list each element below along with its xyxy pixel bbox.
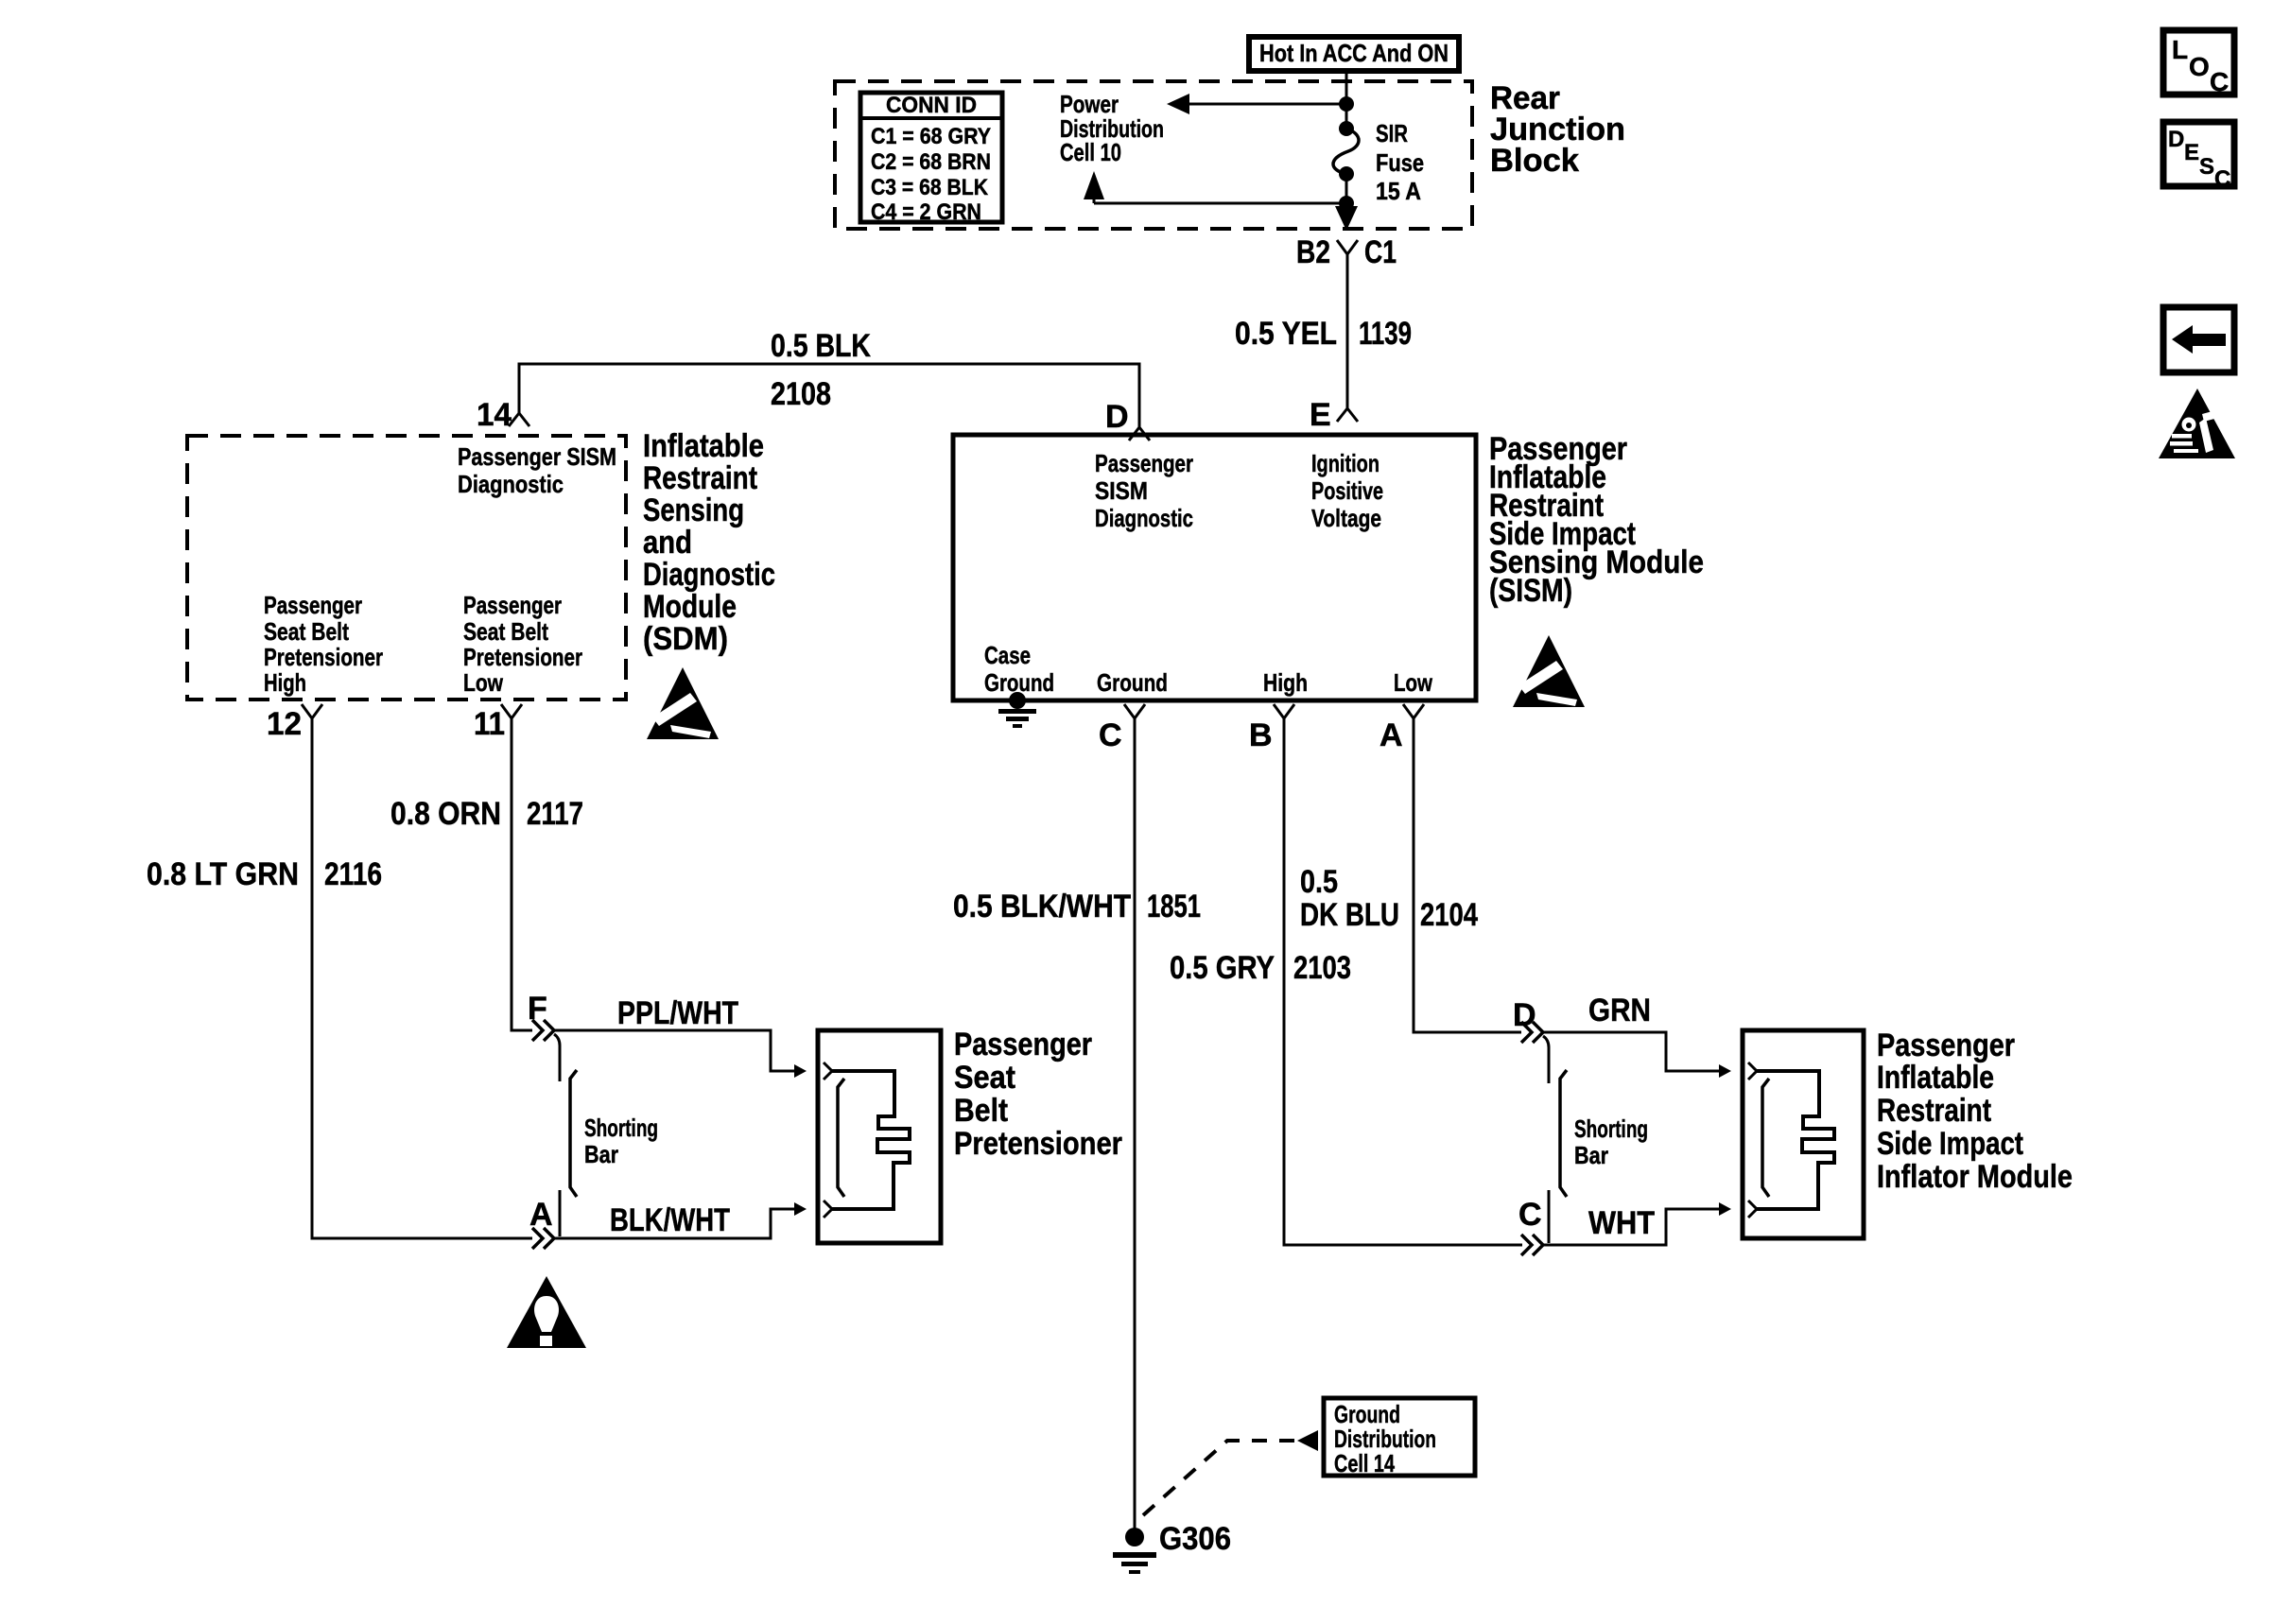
- svg-text:Bar: Bar: [1574, 1141, 1608, 1169]
- Power Distribution Cell 10 label: [1060, 90, 1164, 166]
- SDM module box (dashed outline): [187, 436, 626, 700]
- svg-text:C2 = 68 BRN: C2 = 68 BRN: [871, 149, 991, 175]
- svg-text:1851: 1851: [1147, 889, 1201, 924]
- connector B2/C1: [1296, 234, 1397, 270]
- svg-text:Passenger: Passenger: [1095, 449, 1193, 477]
- SISM internal pin labels: [1097, 668, 1433, 697]
- svg-text:BLK/WHT: BLK/WHT: [610, 1202, 730, 1238]
- svg-text:E: E: [1310, 397, 1331, 433]
- SISM label: [1489, 431, 1704, 609]
- LOC reference box: [2163, 30, 2234, 96]
- svg-text:O: O: [2189, 52, 2210, 81]
- svg-text:C4 = 2 GRN: C4 = 2 GRN: [871, 199, 981, 225]
- SDM label: [643, 428, 775, 657]
- svg-text:Hot In ACC And ON: Hot In ACC And ON: [1259, 39, 1449, 67]
- wire: fuse to connector B2 (down arrow): [1335, 206, 1358, 231]
- label: SIR Fuse 15 A: [1376, 119, 1424, 205]
- wire 2108: pin 14 to pin D: [519, 364, 1139, 427]
- in-line connector C: [1518, 1190, 1549, 1255]
- svg-text:2117: 2117: [527, 796, 583, 832]
- wire 1139: B2/C1 to pin E: [1346, 254, 1349, 408]
- wire: fuse output: [1345, 174, 1348, 216]
- wire 2116: pin 12 to connector A: [312, 718, 532, 1238]
- svg-text:and: and: [643, 525, 692, 561]
- in-line connector D: [1513, 997, 1549, 1083]
- svg-text:B: B: [1249, 717, 1273, 753]
- svg-text:Cell 14: Cell 14: [1334, 1449, 1395, 1477]
- svg-text:E: E: [2184, 140, 2199, 165]
- svg-text:Diagnostic: Diagnostic: [1095, 504, 1193, 532]
- wire GRN: connector D to inflator: [1543, 1032, 1731, 1078]
- wire PPL/WHT: connector F to pretensioner: [554, 1030, 807, 1078]
- svg-text:Block: Block: [1490, 143, 1579, 179]
- dashed reference wire to Ground Distribution: [1143, 1430, 1318, 1515]
- label: 0.5 GRY 2103: [1170, 950, 1351, 986]
- pin 14: [477, 397, 529, 433]
- svg-text:0.5 YEL: 0.5 YEL: [1235, 316, 1337, 352]
- Passenger Seat Belt Pretensioner label: [954, 1027, 1122, 1162]
- svg-text:SISM: SISM: [1095, 476, 1148, 505]
- svg-text:Passenger SISM: Passenger SISM: [458, 442, 616, 471]
- label: 0.5 BLK/WHT 1851: [953, 889, 1201, 924]
- svg-text:CONN ID: CONN ID: [886, 93, 977, 118]
- svg-text:0.5 BLK/WHT: 0.5 BLK/WHT: [953, 889, 1131, 924]
- wire: Hot In ACC feed: [1345, 71, 1348, 129]
- svg-text:0.8 ORN: 0.8 ORN: [390, 796, 501, 832]
- svg-text:C1 = 68 GRY: C1 = 68 GRY: [871, 124, 991, 149]
- svg-text:12: 12: [267, 706, 302, 742]
- shorting bar (pretensioner connector): [570, 1070, 658, 1197]
- wire 2117: pin 11 to connector F: [512, 718, 532, 1030]
- svg-text:Positive: Positive: [1311, 476, 1383, 505]
- svg-text:2116: 2116: [324, 856, 382, 892]
- svg-text:Shorting: Shorting: [1574, 1114, 1648, 1143]
- svg-text:Passenger: Passenger: [1877, 1028, 2015, 1063]
- svg-text:PPL/WHT: PPL/WHT: [617, 995, 738, 1031]
- svg-text:0.8 LT GRN: 0.8 LT GRN: [147, 856, 299, 892]
- svg-text:Bar: Bar: [584, 1140, 618, 1168]
- svg-text:D: D: [1105, 399, 1129, 435]
- svg-text:Inflatable: Inflatable: [643, 428, 764, 464]
- Passenger Inflatable Restraint Side Impact Inflator Module box: [1743, 1030, 1864, 1238]
- svg-text:Low: Low: [463, 668, 504, 697]
- svg-text:C1: C1: [1364, 234, 1397, 270]
- svg-text:A: A: [529, 1197, 553, 1233]
- fuse: SIR Fuse 15 A: [1333, 121, 1359, 181]
- svg-text:Seat Belt: Seat Belt: [264, 617, 349, 646]
- svg-text:Shorting: Shorting: [584, 1114, 658, 1142]
- SIR airbag caution triangle: [2159, 389, 2235, 458]
- svg-text:0.5: 0.5: [1300, 864, 1338, 900]
- svg-text:C3 = 68 BLK: C3 = 68 BLK: [871, 175, 989, 200]
- svg-text:Inflator Module: Inflator Module: [1877, 1159, 2073, 1195]
- Rear Junction Block label: [1490, 80, 1625, 179]
- shorting bar (inflator connector): [1560, 1070, 1648, 1197]
- svg-text:D: D: [1513, 997, 1536, 1033]
- SISM internal label: Case Ground: [984, 641, 1054, 697]
- wire BLK/WHT: connector A to pretensioner: [554, 1202, 807, 1238]
- wire 1851: pin C to G306: [1134, 718, 1136, 1531]
- svg-text:F: F: [528, 991, 547, 1027]
- SDM internal label: Pretensioner Low: [463, 591, 582, 697]
- svg-text:1139: 1139: [1359, 316, 1412, 352]
- svg-text:Belt: Belt: [954, 1093, 1008, 1129]
- svg-text:C: C: [1518, 1197, 1542, 1233]
- svg-text:Side Impact: Side Impact: [1877, 1126, 2023, 1162]
- CONN ID table: [860, 93, 1002, 225]
- svg-text:Fuse: Fuse: [1376, 148, 1424, 177]
- svg-text:11: 11: [474, 706, 505, 742]
- svg-text:L: L: [2172, 35, 2188, 64]
- case ground symbol: [998, 692, 1036, 728]
- svg-text:DK BLU: DK BLU: [1300, 897, 1399, 933]
- svg-text:Low: Low: [1394, 668, 1433, 697]
- wire 2104: pin A to connector D: [1414, 718, 1521, 1032]
- svg-text:G306: G306: [1159, 1521, 1231, 1557]
- svg-text:Restraint: Restraint: [643, 460, 757, 496]
- wire WHT: connector C to inflator: [1543, 1202, 1731, 1245]
- svg-text:C: C: [2214, 166, 2230, 192]
- ground G306: [1113, 1521, 1231, 1574]
- back arrow box: [2163, 307, 2234, 372]
- svg-text:(SISM): (SISM): [1489, 573, 1572, 609]
- pin A: [1379, 704, 1424, 753]
- svg-text:Module: Module: [643, 589, 737, 625]
- svg-text:Ground: Ground: [1097, 668, 1168, 697]
- inflator initiator symbol: [1748, 1063, 1834, 1218]
- svg-text:Seat Belt: Seat Belt: [463, 617, 548, 646]
- svg-text:Restraint: Restraint: [1877, 1093, 1991, 1129]
- pretensioner initiator symbol: [824, 1063, 910, 1218]
- svg-text:S: S: [2199, 154, 2214, 180]
- ESD caution symbol (SDM): [647, 667, 719, 739]
- svg-text:Pretensioner: Pretensioner: [954, 1126, 1122, 1162]
- svg-text:A: A: [1379, 717, 1403, 753]
- pin 11: [474, 704, 522, 742]
- svg-text:2104: 2104: [1420, 897, 1478, 933]
- SISM module box: [953, 435, 1476, 700]
- svg-text:SIR: SIR: [1376, 119, 1408, 147]
- svg-text:14: 14: [477, 397, 512, 433]
- Rear Junction Block (dashed outline): [835, 81, 1472, 229]
- pin D: [1105, 399, 1150, 441]
- label: 0.8 LT GRN 2116: [147, 856, 382, 892]
- wire: to power distribution cell 10 (up arrow): [1084, 171, 1346, 203]
- svg-text:Pretensioner: Pretensioner: [463, 643, 582, 671]
- pin B: [1249, 704, 1294, 753]
- power feed label box "Hot In ACC And ON": [1249, 37, 1459, 71]
- svg-text:Sensing: Sensing: [643, 492, 744, 528]
- label: 0.5 DK BLU 2104: [1300, 864, 1478, 933]
- svg-text:GRN: GRN: [1588, 993, 1651, 1028]
- svg-text:D: D: [2168, 127, 2184, 152]
- label: 0.5 YEL 1139: [1235, 316, 1412, 352]
- svg-text:Passenger: Passenger: [264, 591, 362, 619]
- svg-text:0.5 GRY: 0.5 GRY: [1170, 950, 1275, 986]
- ESD caution symbol (SISM): [1513, 635, 1585, 707]
- label: 0.8 ORN 2117: [390, 796, 583, 832]
- svg-text:(SDM): (SDM): [643, 621, 728, 657]
- svg-text:Pretensioner: Pretensioner: [264, 643, 383, 671]
- svg-text:Diagnostic: Diagnostic: [643, 557, 775, 593]
- Ground Distribution Cell 14 box: [1324, 1398, 1475, 1477]
- junction: feed node: [1339, 96, 1354, 112]
- svg-text:15 A: 15 A: [1376, 177, 1421, 205]
- in-line connector F: [528, 991, 560, 1081]
- inflator module label: [1877, 1028, 2073, 1195]
- pin E: [1310, 397, 1358, 433]
- SDM internal label: Passenger SISM Diagnostic: [458, 442, 616, 498]
- svg-text:Seat: Seat: [954, 1060, 1015, 1096]
- SISM internal label: Passenger SISM Diagnostic: [1095, 449, 1193, 532]
- pin C: [1099, 704, 1145, 753]
- svg-text:Ignition: Ignition: [1311, 449, 1379, 477]
- svg-text:0.5 BLK: 0.5 BLK: [771, 328, 871, 364]
- svg-text:Cell 10: Cell 10: [1060, 138, 1121, 166]
- label: 0.5 BLK 2108: [771, 328, 871, 412]
- svg-text:High: High: [264, 668, 306, 697]
- SISM internal label: Ignition Positive Voltage: [1311, 449, 1383, 532]
- svg-text:B2: B2: [1296, 234, 1330, 270]
- svg-text:Diagnostic: Diagnostic: [458, 470, 564, 498]
- Passenger Seat Belt Pretensioner box: [818, 1030, 941, 1243]
- svg-text:C: C: [1099, 717, 1122, 753]
- svg-text:High: High: [1263, 668, 1308, 697]
- svg-text:2103: 2103: [1293, 950, 1351, 986]
- svg-text:C: C: [2210, 67, 2229, 96]
- wire: to power distribution cell 10 (left arrow): [1167, 94, 1346, 114]
- svg-text:Case: Case: [984, 641, 1031, 669]
- svg-text:2108: 2108: [771, 376, 831, 412]
- in-line connector A: [529, 1190, 560, 1249]
- DESC reference box: [2163, 122, 2234, 192]
- wire 2103: pin B to connector C: [1284, 718, 1522, 1245]
- svg-text:Passenger: Passenger: [463, 591, 562, 619]
- svg-text:Passenger: Passenger: [954, 1027, 1092, 1063]
- junction: fuse output node: [1339, 196, 1354, 211]
- SIR caution triangle (exclamation): [507, 1276, 586, 1348]
- pin 12: [267, 704, 322, 742]
- svg-text:Inflatable: Inflatable: [1877, 1060, 1994, 1096]
- svg-text:Voltage: Voltage: [1311, 504, 1381, 532]
- SDM internal label: Pretensioner High: [264, 591, 383, 697]
- svg-text:WHT: WHT: [1588, 1205, 1655, 1241]
